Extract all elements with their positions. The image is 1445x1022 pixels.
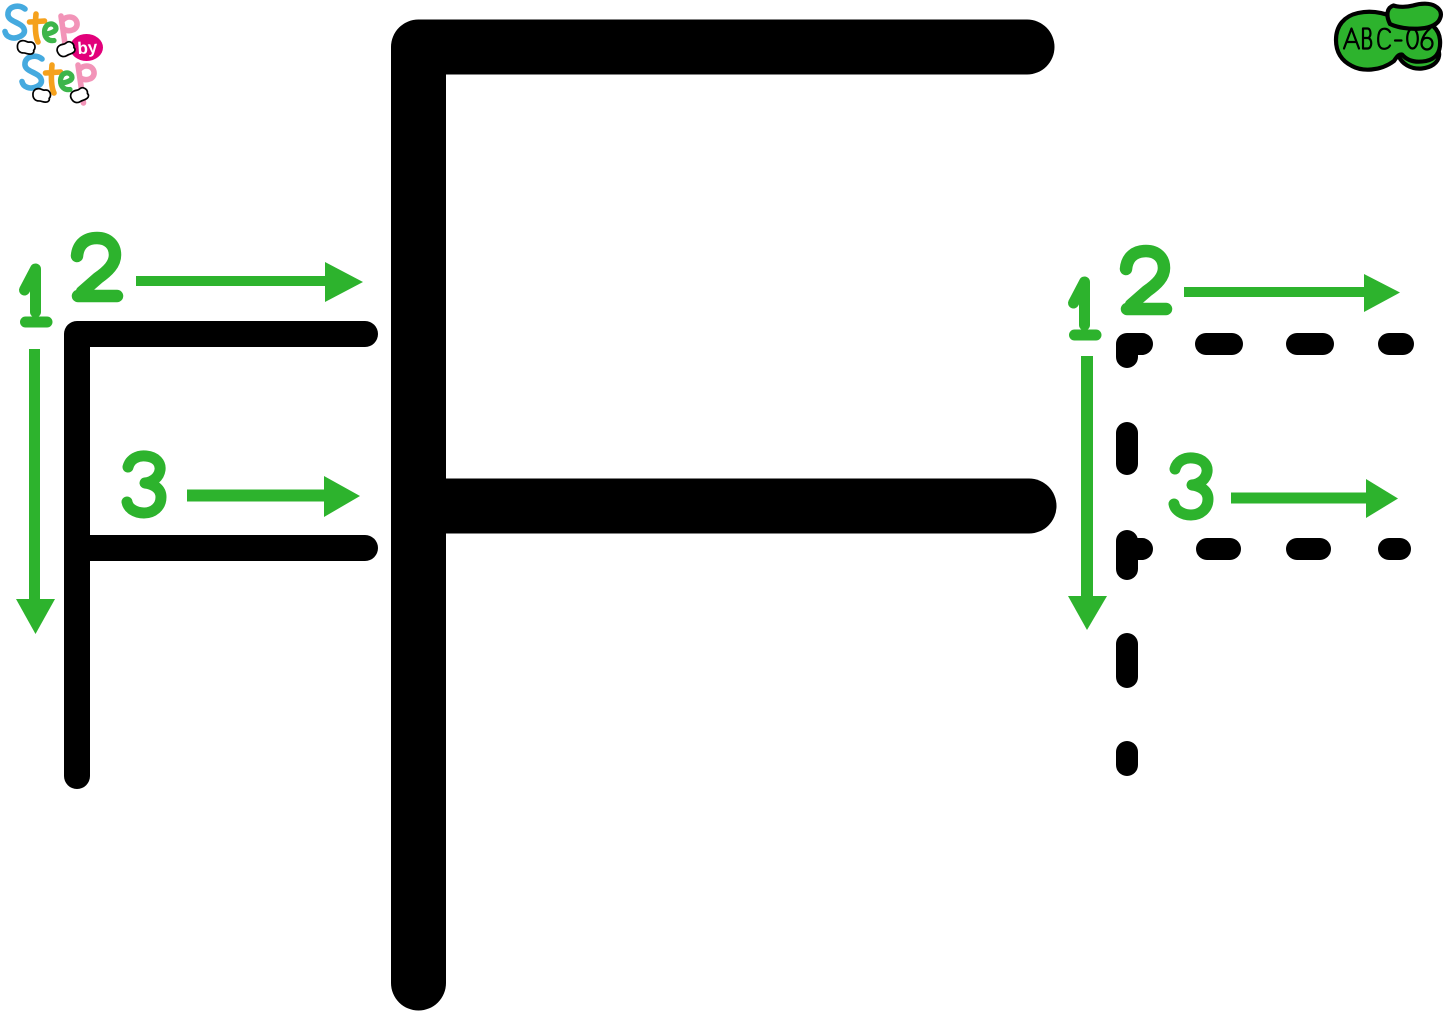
svg-text:by: by xyxy=(77,38,99,58)
